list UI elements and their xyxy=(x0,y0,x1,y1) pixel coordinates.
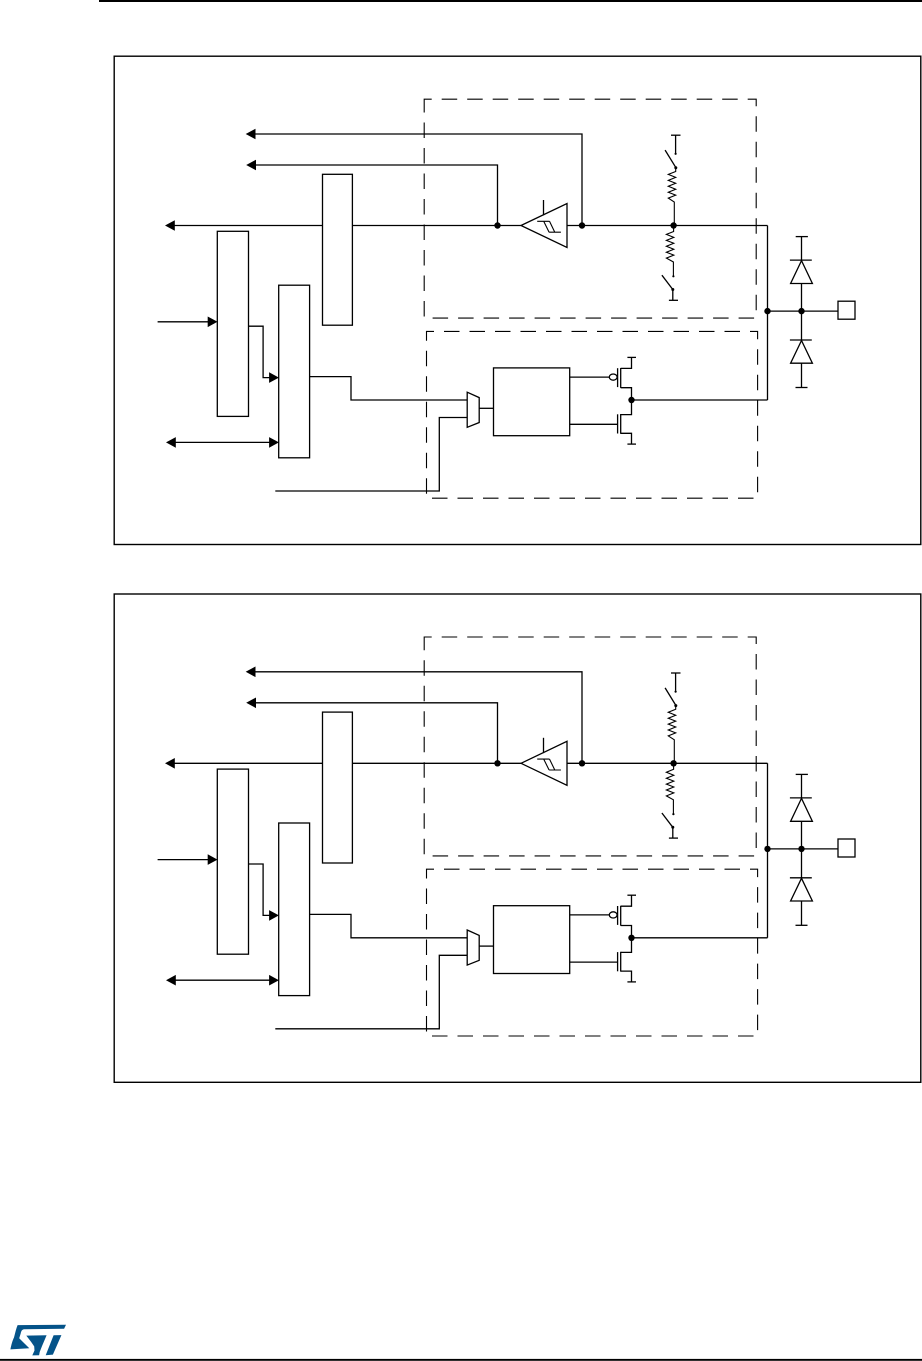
figure 2: five-volt tolerant I/O port bit structure (duplicate of figure 1) xyxy=(114,594,921,1082)
footer rule xyxy=(0,1359,922,1361)
header rule xyxy=(99,0,922,2)
figure 1: I/O port bit structure xyxy=(114,56,921,544)
ST logo xyxy=(10,1325,66,1356)
